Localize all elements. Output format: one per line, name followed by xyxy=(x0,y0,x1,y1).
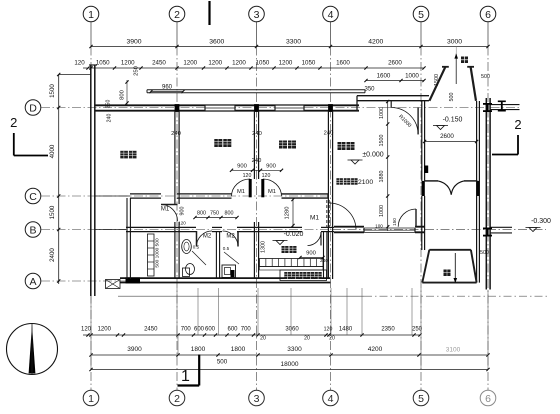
wall toilet partition 2 xyxy=(253,222,255,279)
svg-text:M2: M2 xyxy=(203,234,212,240)
room label chuanda xyxy=(338,142,346,150)
wall B segment a xyxy=(126,226,196,228)
column grid4/D xyxy=(328,104,333,112)
dim row2 bottom line xyxy=(91,354,488,356)
svg-text:3300: 3300 xyxy=(286,39,301,46)
dim row3 right line xyxy=(366,80,424,82)
gate door leaf right xyxy=(464,180,477,182)
wall D exterior (top) xyxy=(95,104,359,106)
svg-text:5: 5 xyxy=(418,393,424,405)
axis bubble 6 bottom xyxy=(480,390,496,406)
steel column grid6/D xyxy=(483,103,492,105)
svg-text:M2: M2 xyxy=(226,234,235,240)
boundary wall left cap xyxy=(89,64,97,66)
svg-text:1600: 1600 xyxy=(377,73,391,80)
canopy line above wall D xyxy=(147,89,365,91)
door M1 right monitoring xyxy=(263,179,282,196)
svg-text:1500: 1500 xyxy=(434,74,440,86)
svg-text:3600: 3600 xyxy=(209,39,224,46)
svg-text:1050: 1050 xyxy=(256,59,270,66)
dim chain line right corridor xyxy=(387,102,389,232)
passage centerline right xyxy=(332,228,546,230)
svg-text:240: 240 xyxy=(171,131,181,137)
svg-text:1600: 1600 xyxy=(336,59,350,66)
svg-text:1880: 1880 xyxy=(379,171,385,183)
axis bubble 3 bottom xyxy=(249,390,265,406)
door M1 anteroom xyxy=(161,205,178,222)
passage wall left xyxy=(421,101,423,181)
axis bubble 2 top xyxy=(169,6,185,22)
wall A window black fill xyxy=(126,277,141,283)
label menDongGao2100 xyxy=(336,178,343,185)
site boundary line bottom xyxy=(118,295,364,297)
svg-text:A: A xyxy=(29,276,36,288)
svg-text:2450: 2450 xyxy=(144,327,158,333)
toilet2 squat pan xyxy=(222,265,236,278)
door M1 left monitoring xyxy=(232,179,251,196)
svg-text:2600: 2600 xyxy=(440,133,454,140)
svg-text:3000: 3000 xyxy=(447,39,462,46)
grid line D (horizontal axis) xyxy=(41,107,521,109)
gate ramp bottom edge xyxy=(422,282,476,284)
svg-text:20: 20 xyxy=(260,336,266,342)
up arrow top entrance xyxy=(455,54,457,84)
gate door arc left xyxy=(438,181,451,195)
fence wall right of D xyxy=(490,104,520,106)
up label top entrance xyxy=(461,57,468,64)
dim extension lines bottom2 xyxy=(90,296,92,370)
door M1 corridor grid4 xyxy=(326,200,328,229)
svg-text:500: 500 xyxy=(481,74,490,80)
up arrow bottom ramp xyxy=(454,253,456,283)
svg-text:350: 350 xyxy=(364,87,375,93)
axis bubble 5 bottom xyxy=(413,390,429,406)
svg-text:B: B xyxy=(29,224,36,236)
axis bubble B left xyxy=(25,222,41,238)
svg-text:700: 700 xyxy=(241,327,252,333)
svg-text:6: 6 xyxy=(485,393,491,405)
svg-text:240: 240 xyxy=(107,114,113,123)
svg-text:1: 1 xyxy=(181,368,190,385)
anteroom dim line 800 750 800 xyxy=(195,217,237,219)
left dim line xyxy=(58,75,60,285)
gate ramp top edge xyxy=(429,249,471,251)
wall C segment d xyxy=(282,193,329,195)
svg-text:2350: 2350 xyxy=(381,327,395,333)
dim row2 top line xyxy=(83,67,424,69)
svg-text:0.5: 0.5 xyxy=(223,246,230,251)
svg-text:100: 100 xyxy=(375,224,383,229)
svg-text:-0.020: -0.020 xyxy=(284,231,304,238)
svg-text:1500: 1500 xyxy=(379,135,385,147)
svg-text:1: 1 xyxy=(88,393,94,405)
column grid2/D xyxy=(175,104,180,112)
gate ramp left side xyxy=(422,250,429,283)
up label bottom ramp xyxy=(444,270,451,277)
svg-text:600: 600 xyxy=(194,327,205,333)
grid line 3 (vertical axis) xyxy=(256,22,258,47)
mailbox lower band xyxy=(260,267,324,271)
toilet1 sink xyxy=(182,240,192,254)
svg-text:M1: M1 xyxy=(310,215,319,222)
svg-text:3: 3 xyxy=(254,9,260,21)
svg-text:3900: 3900 xyxy=(127,346,142,353)
upper wall right section xyxy=(357,95,429,97)
steel column right of grid6/D xyxy=(498,101,506,103)
door mailbox room xyxy=(308,232,322,246)
axis bubble A left xyxy=(25,273,41,289)
svg-text:2: 2 xyxy=(10,115,17,130)
axis bubble 4 bottom xyxy=(323,390,339,406)
svg-text:350: 350 xyxy=(106,100,112,109)
svg-text:600: 600 xyxy=(227,327,238,333)
svg-text:750: 750 xyxy=(210,211,219,217)
svg-text:1200: 1200 xyxy=(279,59,293,66)
svg-text:1000: 1000 xyxy=(405,73,419,80)
label chengpinxinbaoxiang box xyxy=(280,270,327,281)
room label zhiban 2 xyxy=(214,139,222,147)
monitoring doors dim line xyxy=(232,169,282,171)
svg-text:240: 240 xyxy=(252,158,262,164)
door M1 passage south xyxy=(398,209,416,227)
svg-text:150: 150 xyxy=(392,218,397,226)
svg-text:1200: 1200 xyxy=(183,59,197,66)
wall B segment c xyxy=(237,226,302,228)
svg-text:5: 5 xyxy=(418,9,424,21)
svg-text:900: 900 xyxy=(306,251,316,257)
wall B right jamb xyxy=(415,226,425,228)
svg-text:500: 500 xyxy=(449,93,455,102)
wall D window W1 xyxy=(205,105,235,110)
svg-text:3100: 3100 xyxy=(446,347,461,354)
fence wall right lower xyxy=(490,226,512,228)
grid line 1 (vertical axis) xyxy=(90,22,92,47)
svg-text:900: 900 xyxy=(180,207,186,216)
wall mailbox right xyxy=(323,232,325,280)
gate door arc right xyxy=(451,181,464,195)
svg-text:1000: 1000 xyxy=(379,205,385,217)
passage pier black xyxy=(424,166,428,174)
svg-text:1050: 1050 xyxy=(302,59,316,66)
svg-text:2100: 2100 xyxy=(358,179,373,186)
svg-text:6: 6 xyxy=(485,9,491,21)
wall B right thick xyxy=(334,226,364,228)
bench strip left room xyxy=(148,234,155,276)
dim extension top small ticks xyxy=(455,47,457,55)
entrance splay left xyxy=(429,67,445,101)
dim extension lines bottom xyxy=(176,288,178,335)
label shubao xyxy=(282,246,289,253)
svg-text:1800: 1800 xyxy=(191,346,206,353)
entrance splay top caps xyxy=(442,66,449,68)
svg-text:900: 900 xyxy=(266,163,276,169)
svg-text:1500: 1500 xyxy=(49,205,56,219)
dim row1 bottom line xyxy=(83,334,420,336)
wall toilet partition 1 xyxy=(215,232,217,280)
svg-text:250: 250 xyxy=(134,66,140,76)
svg-text:M1: M1 xyxy=(237,189,245,195)
svg-text:120: 120 xyxy=(74,59,85,66)
svg-text:800: 800 xyxy=(120,90,126,100)
axis bubble 4 top xyxy=(323,6,339,22)
wall grid3 interior xyxy=(253,111,255,179)
grid line 5 (vertical axis) xyxy=(420,22,422,47)
steel column grid6 lower xyxy=(483,228,492,230)
svg-text:900: 900 xyxy=(237,163,247,169)
wall B segment d xyxy=(321,226,334,228)
svg-text:1: 1 xyxy=(88,9,94,21)
svg-text:2: 2 xyxy=(174,393,180,405)
svg-text:2600: 2600 xyxy=(388,59,402,66)
door R1000 entrance xyxy=(391,108,418,135)
door R1000 jamb xyxy=(390,101,392,108)
svg-text:C: C xyxy=(29,191,37,203)
svg-text:3060: 3060 xyxy=(285,327,299,333)
gate jamb left xyxy=(422,181,425,196)
grid line 2 (vertical axis) xyxy=(176,22,178,47)
wall grid2 interior xyxy=(174,111,176,204)
north arrow needle xyxy=(29,325,36,374)
svg-text:20: 20 xyxy=(329,336,335,342)
section mark 1 cut line top xyxy=(208,1,210,25)
svg-text:600: 600 xyxy=(205,327,216,333)
svg-text:1200: 1200 xyxy=(98,327,112,333)
svg-text:1200: 1200 xyxy=(121,59,135,66)
dim 1280 corridor xyxy=(292,198,294,227)
room label zhiban 1 xyxy=(120,151,128,159)
gate door leaf left xyxy=(425,180,438,182)
grid line 4 (vertical axis) xyxy=(330,22,332,47)
svg-text:120: 120 xyxy=(243,173,252,179)
svg-text:500: 500 xyxy=(217,359,228,366)
svg-text:2: 2 xyxy=(514,117,521,132)
wall C segment b xyxy=(130,193,161,195)
axis bubble 1 top xyxy=(83,6,99,22)
toilet1 wc xyxy=(183,268,190,277)
svg-text:1300: 1300 xyxy=(261,241,267,253)
wall A exterior xyxy=(120,277,331,279)
wall B segment b xyxy=(212,226,222,228)
svg-text:0.5: 0.5 xyxy=(193,245,200,250)
axis bubble 5 top xyxy=(413,6,429,22)
svg-text:3: 3 xyxy=(254,393,260,405)
left dim ticks xyxy=(57,73,60,76)
boundary wall left xyxy=(90,65,92,296)
wall B right window xyxy=(364,227,415,229)
svg-text:700: 700 xyxy=(181,327,192,333)
svg-text:1280: 1280 xyxy=(285,207,291,220)
column grid3/D xyxy=(254,104,259,112)
svg-text:±0.000: ±0.000 xyxy=(362,152,383,159)
passage wall left lower xyxy=(421,196,423,250)
svg-text:4200: 4200 xyxy=(368,39,383,46)
svg-text:800: 800 xyxy=(225,211,234,217)
passage wall right xyxy=(476,101,478,283)
grid line 6 (vertical axis) xyxy=(487,22,489,47)
svg-text:18000: 18000 xyxy=(280,361,298,368)
wall A crossed window box xyxy=(106,280,121,289)
mailbox cell row xyxy=(260,259,324,267)
svg-text:1200: 1200 xyxy=(232,59,246,66)
svg-text:4000: 4000 xyxy=(49,144,56,158)
svg-text:3300: 3300 xyxy=(287,346,302,353)
dim row3 bottom line xyxy=(91,369,488,371)
svg-text:4200: 4200 xyxy=(368,346,383,353)
svg-text:120: 120 xyxy=(262,173,271,179)
svg-text:240: 240 xyxy=(324,131,334,137)
boundary wall right xyxy=(485,98,487,290)
svg-text:500 1000 500: 500 1000 500 xyxy=(155,238,161,268)
dim row1 top line xyxy=(91,46,488,48)
north arrow circle xyxy=(7,324,58,375)
svg-text:120: 120 xyxy=(178,221,186,226)
svg-text:4: 4 xyxy=(328,9,334,21)
svg-text:800: 800 xyxy=(197,211,206,217)
svg-text:D: D xyxy=(29,102,37,114)
axis bubble C left xyxy=(25,188,41,204)
svg-text:20: 20 xyxy=(304,336,310,342)
grid line B (horizontal axis) xyxy=(41,229,334,231)
svg-text:1480: 1480 xyxy=(339,327,353,333)
door M2 toilet1 xyxy=(197,231,213,247)
axis bubble 2 bottom xyxy=(169,390,185,406)
wall D window W2 xyxy=(275,105,304,110)
svg-text:-0.300: -0.300 xyxy=(531,218,551,225)
svg-text:240: 240 xyxy=(320,258,328,264)
axis bubble 1 bottom xyxy=(83,390,99,406)
svg-text:1800: 1800 xyxy=(231,346,246,353)
wall grid4 interior xyxy=(327,111,329,279)
door M2 toilet2 xyxy=(223,231,239,247)
axis bubble D left xyxy=(25,100,41,116)
svg-text:1000: 1000 xyxy=(379,107,385,119)
svg-text:2: 2 xyxy=(174,9,180,21)
entrance splay right xyxy=(471,67,476,101)
grid line C (horizontal axis) xyxy=(41,195,332,197)
label chengpinxinbaoxiang xyxy=(284,272,291,279)
svg-text:2450: 2450 xyxy=(152,59,166,66)
grid line A (horizontal axis) xyxy=(41,280,129,282)
gate ramp right side xyxy=(471,250,477,283)
wall C segment c xyxy=(177,193,232,195)
dim row2 bottom ticks+texts xyxy=(89,353,92,356)
svg-text:1050: 1050 xyxy=(96,59,110,66)
svg-text:-0.150: -0.150 xyxy=(443,117,463,124)
svg-text:4: 4 xyxy=(328,393,334,405)
svg-text:240: 240 xyxy=(252,131,262,137)
svg-text:1200: 1200 xyxy=(208,59,222,66)
svg-text:500: 500 xyxy=(480,250,489,256)
wall toilet block left xyxy=(126,198,128,279)
axis bubble 3 top xyxy=(249,6,265,22)
svg-text:3900: 3900 xyxy=(126,39,141,46)
wall C segment a xyxy=(95,195,130,197)
svg-text:1500: 1500 xyxy=(49,84,56,98)
room label jiankong xyxy=(279,141,287,149)
svg-text:M1: M1 xyxy=(268,189,276,195)
svg-text:120: 120 xyxy=(81,327,92,333)
svg-text:2400: 2400 xyxy=(49,248,56,262)
axis bubble 6 top xyxy=(480,6,496,22)
svg-text:M1: M1 xyxy=(161,207,170,213)
